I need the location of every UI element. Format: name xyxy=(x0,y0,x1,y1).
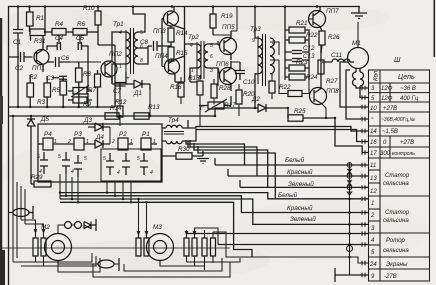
svg-text:Д1: Д1 xyxy=(133,90,142,97)
svg-text:R14: R14 xyxy=(176,30,188,37)
svg-text:Р4: Р4 xyxy=(44,131,52,138)
svg-text:R8: R8 xyxy=(83,71,92,78)
svg-text:R22: R22 xyxy=(279,84,291,91)
svg-text:16: 16 xyxy=(370,140,377,146)
svg-text:5: 5 xyxy=(84,156,87,162)
svg-text:R29: R29 xyxy=(31,174,43,181)
svg-text:С7: С7 xyxy=(113,88,122,95)
svg-text:ПП5: ПП5 xyxy=(222,24,235,31)
svg-text:Белый: Белый xyxy=(278,191,298,199)
svg-text:5: 5 xyxy=(58,154,61,160)
svg-text:сельсина: сельсина xyxy=(383,181,409,187)
svg-text:8: 8 xyxy=(140,58,143,64)
svg-text:R5: R5 xyxy=(52,87,61,94)
svg-text:С11: С11 xyxy=(331,52,342,59)
svg-text:R31: R31 xyxy=(34,38,46,45)
svg-text:5: 5 xyxy=(140,30,143,36)
svg-text:R21: R21 xyxy=(296,20,308,27)
svg-text:R17: R17 xyxy=(224,102,236,109)
svg-text:R27: R27 xyxy=(326,78,338,85)
svg-text:ПП6: ПП6 xyxy=(216,61,229,68)
svg-text:R19: R19 xyxy=(221,13,233,20)
svg-text:ПП8: ПП8 xyxy=(326,88,339,95)
svg-text:Тр1: Тр1 xyxy=(113,21,124,28)
svg-text:1: 1 xyxy=(119,64,122,70)
svg-text:5: 5 xyxy=(103,156,106,162)
svg-text:12Ф: 12Ф xyxy=(381,96,393,102)
svg-text:R16: R16 xyxy=(170,84,182,91)
svg-text:Тр2: Тр2 xyxy=(188,34,199,41)
svg-text:R26: R26 xyxy=(328,34,340,41)
svg-text:R6: R6 xyxy=(77,21,86,28)
svg-text:Белый: Белый xyxy=(285,156,305,164)
svg-text:ПП7: ПП7 xyxy=(326,8,339,15)
svg-text:R25: R25 xyxy=(294,108,306,115)
svg-text:2: 2 xyxy=(67,139,71,145)
svg-text:R10: R10 xyxy=(83,5,95,12)
svg-text:R20: R20 xyxy=(243,91,255,98)
svg-text:1: 1 xyxy=(371,201,374,207)
svg-text:24: 24 xyxy=(369,262,377,268)
svg-text:М3: М3 xyxy=(153,224,162,231)
svg-text:12: 12 xyxy=(370,189,377,195)
svg-text:ПП1: ПП1 xyxy=(32,65,45,72)
svg-text:Р2: Р2 xyxy=(119,131,127,138)
svg-text:Ш: Ш xyxy=(394,57,401,64)
svg-text:5: 5 xyxy=(210,43,213,49)
svg-text:Тр4: Тр4 xyxy=(168,117,179,124)
svg-text:4: 4 xyxy=(150,170,153,176)
svg-text:ПП2: ПП2 xyxy=(109,51,122,58)
svg-text:С3: С3 xyxy=(46,75,55,82)
svg-text:Цепь: Цепь xyxy=(398,74,415,81)
svg-text:М1: М1 xyxy=(352,40,361,47)
svg-text:R1: R1 xyxy=(36,15,44,22)
svg-text:Зеленый: Зеленый xyxy=(288,180,314,188)
svg-text:14: 14 xyxy=(370,129,377,135)
svg-text:1: 1 xyxy=(130,139,133,145)
svg-text:4: 4 xyxy=(117,170,120,176)
svg-text:11: 11 xyxy=(370,163,376,169)
svg-text:R4: R4 xyxy=(55,21,64,28)
svg-text:4: 4 xyxy=(71,169,74,175)
svg-text:С12: С12 xyxy=(303,45,315,52)
svg-text:Статор: Статор xyxy=(385,210,410,216)
svg-text:~36В,400Гц,№: ~36В,400Гц,№ xyxy=(381,117,416,123)
svg-text:С5: С5 xyxy=(76,35,85,42)
svg-text:С8: С8 xyxy=(140,39,149,46)
svg-text:5: 5 xyxy=(137,156,140,162)
svg-text:R9: R9 xyxy=(83,101,92,108)
svg-text:t°: t° xyxy=(200,104,205,112)
svg-text:+27В: +27В xyxy=(383,106,397,112)
svg-text:ПП3: ПП3 xyxy=(153,28,166,35)
svg-text:6: 6 xyxy=(210,54,213,60)
svg-text:1: 1 xyxy=(54,139,57,145)
svg-text:1: 1 xyxy=(191,68,194,74)
svg-text:R12: R12 xyxy=(115,99,127,106)
svg-text:С4: С4 xyxy=(55,35,64,42)
svg-text:17: 17 xyxy=(370,151,377,157)
svg-text:13: 13 xyxy=(370,176,377,182)
svg-text:400 Гц: 400 Гц xyxy=(400,96,419,102)
svg-text:1: 1 xyxy=(86,139,89,145)
svg-text:С1: С1 xyxy=(13,39,21,46)
svg-text:R28: R28 xyxy=(219,85,231,92)
svg-text:ПП4: ПП4 xyxy=(155,53,168,60)
svg-text:12Ф: 12Ф xyxy=(381,86,393,92)
svg-text:R24: R24 xyxy=(306,74,318,81)
svg-text:1: 1 xyxy=(153,139,156,145)
svg-text:Р3: Р3 xyxy=(74,131,82,138)
svg-text:~36 В: ~36 В xyxy=(400,86,416,92)
svg-text:R2: R2 xyxy=(29,74,38,81)
svg-text:Ротор: Ротор xyxy=(386,238,406,244)
svg-text:3: 3 xyxy=(210,68,213,74)
svg-text:Д3: Д3 xyxy=(83,117,92,124)
svg-text:Экраны: Экраны xyxy=(386,262,408,268)
svg-text:2: 2 xyxy=(370,213,375,219)
svg-text:R34: R34 xyxy=(110,105,122,112)
svg-text:2: 2 xyxy=(111,139,115,145)
svg-text:Тр3: Тр3 xyxy=(250,26,261,33)
svg-text:сельсина: сельсина xyxy=(383,248,409,254)
svg-text:9: 9 xyxy=(252,38,255,44)
svg-text:R30: R30 xyxy=(178,146,190,153)
svg-text:3: 3 xyxy=(272,40,275,46)
svg-text:R18: R18 xyxy=(188,75,200,82)
svg-text:R23: R23 xyxy=(296,59,308,66)
svg-text:+27В: +27В xyxy=(400,140,414,146)
svg-text:-27В: -27В xyxy=(384,274,397,280)
svg-text:контроль: контроль xyxy=(392,151,415,157)
svg-text:Д4: Д4 xyxy=(95,134,104,141)
svg-text:Красный: Красный xyxy=(287,168,313,176)
svg-text:R3: R3 xyxy=(37,99,46,106)
svg-text:сельсина: сельсина xyxy=(383,218,409,224)
svg-text:Красный: Красный xyxy=(287,204,313,212)
svg-text:R15: R15 xyxy=(176,50,188,57)
svg-text:R13: R13 xyxy=(148,104,160,111)
svg-text:R7: R7 xyxy=(88,87,97,94)
svg-text:Кол: Кол xyxy=(374,70,380,81)
svg-text:C6: C6 xyxy=(61,55,70,62)
svg-text:М2: М2 xyxy=(41,224,50,231)
svg-text:С10: С10 xyxy=(243,79,255,86)
svg-text:Зеленый: Зеленый xyxy=(290,215,316,223)
svg-text:R22: R22 xyxy=(306,32,318,39)
svg-text:10: 10 xyxy=(370,106,377,112)
svg-text:5: 5 xyxy=(37,154,40,160)
svg-text:~1,5В: ~1,5В xyxy=(382,129,398,135)
svg-text:4: 4 xyxy=(190,43,193,49)
svg-text:Р1: Р1 xyxy=(142,131,150,138)
svg-text:С2: С2 xyxy=(15,65,24,72)
svg-text:300: 300 xyxy=(380,151,391,157)
svg-text:Д5: Д5 xyxy=(40,116,49,123)
svg-text:4: 4 xyxy=(119,30,122,36)
svg-text:Статор: Статор xyxy=(385,173,410,179)
svg-text:+: + xyxy=(126,75,130,82)
